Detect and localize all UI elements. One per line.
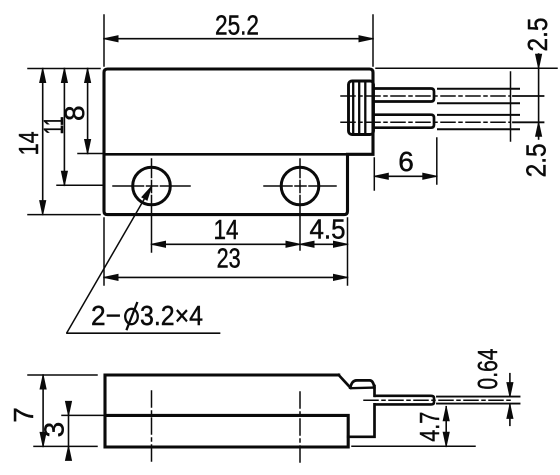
svg-text:3.2×4: 3.2×4: [140, 300, 203, 331]
hole left vertical centerline: [151, 159, 153, 252]
dim 6 left extension line: [373, 158, 375, 190]
pin 2 centerline end dash: [513, 121, 544, 123]
svg-text:25.2: 25.2: [215, 10, 259, 41]
dim 8 extension tick: [78, 153, 103, 155]
svg-text:6: 6: [398, 146, 414, 177]
dim 25.2 line: [104, 38, 373, 40]
svg-text:0.64: 0.64: [472, 349, 503, 390]
dim 14/4.5 line: [152, 243, 348, 245]
dim 7 bottom extension tick: [34, 445, 97, 447]
svg-text:2.5: 2.5: [522, 18, 553, 52]
left bottom extension tick: [28, 214, 100, 216]
svg-text:4.5: 4.5: [310, 214, 346, 245]
dim 7 line: [42, 375, 44, 446]
svg-text:23: 23: [217, 243, 241, 274]
dim 14 line: [42, 69, 44, 215]
wire 2 top edge: [438, 114, 519, 116]
dim 23 line: [104, 276, 348, 278]
connector hatch line 3: [364, 81, 366, 135]
leader underline: [67, 332, 220, 334]
dim 4.5 right extension line: [347, 218, 349, 285]
side body chamfer: [339, 375, 351, 388]
svg-text:4.7: 4.7: [414, 412, 445, 442]
side wire rectangle: [376, 396, 435, 405]
connector block: [349, 81, 374, 135]
dim 8 line: [87, 69, 89, 154]
dim 2.5 vertical line: [538, 54, 540, 139]
dim 3 line: [68, 402, 70, 459]
leader line for holes: [67, 187, 152, 333]
body outline: [104, 69, 373, 215]
hole left circle: [133, 167, 171, 205]
side right edge upper: [373, 386, 376, 396]
dim 25.2 right extension line: [372, 15, 374, 66]
dim 6 right extension line: [436, 138, 438, 184]
svg-text:8: 8: [59, 105, 90, 121]
hole right circle: [281, 167, 319, 205]
callout phi symbol: [125, 302, 138, 330]
side body outline: [105, 375, 348, 447]
pin 1 centerline end dash: [513, 95, 544, 97]
side right edge lower and notch: [348, 404, 374, 436]
dim 11 extension tick: [57, 184, 103, 186]
pin 2 centerline: [341, 121, 510, 123]
dim 25.2 left extension line: [103, 15, 105, 66]
dim 7 top extension tick: [28, 374, 97, 376]
dim 3 extension tick: [62, 414, 103, 416]
connector hatch line 2: [358, 81, 360, 135]
side wire centerline: [364, 399, 514, 401]
dim 23 left extension line: [103, 218, 105, 285]
wire 2 bottom edge: [438, 128, 519, 130]
side latch bump: [350, 380, 374, 387]
dim 0.64 lower line: [509, 404, 511, 425]
wire 1 top edge: [438, 88, 519, 90]
svg-text:3: 3: [39, 422, 70, 438]
hole left horizontal centerline: [113, 185, 190, 187]
pin 1 outline: [374, 89, 434, 102]
svg-text:2.5: 2.5: [521, 143, 552, 177]
left top extension tick: [28, 68, 100, 70]
dim 4.7 line: [445, 407, 447, 447]
svg-text:14: 14: [214, 214, 239, 245]
connector hatch line 1: [352, 81, 354, 135]
side hole centerline left: [151, 391, 153, 463]
dim 4.7 bottom extension line: [352, 445, 475, 447]
side wire thin bottom: [437, 403, 520, 405]
hole right vertical centerline: [299, 159, 301, 250]
dim 11 line: [63, 69, 65, 186]
svg-text:7: 7: [8, 407, 39, 423]
wire 1 bottom edge: [438, 102, 519, 104]
side hole centerline right: [299, 392, 301, 464]
body top extension line to right: [376, 67, 557, 69]
svg-text:2−: 2−: [91, 300, 121, 331]
side wire thin top: [437, 396, 520, 398]
hole right horizontal centerline: [264, 185, 336, 187]
pin 1 centerline: [341, 95, 510, 97]
side latch bump inner line: [352, 386, 374, 389]
dim 0.64 upper line: [509, 374, 511, 397]
dim 6 line: [374, 175, 437, 177]
body inner line (8mm line): [104, 153, 348, 156]
pin 2 outline: [374, 115, 434, 128]
wires extension vertical line: [510, 72, 512, 141]
